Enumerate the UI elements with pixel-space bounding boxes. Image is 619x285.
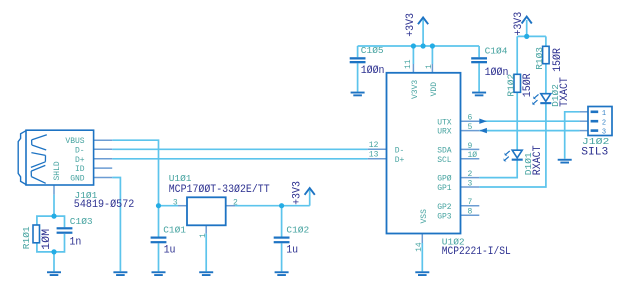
pin stub U102 V3V3 bbox=[412, 64, 414, 73]
wire UTX to J102 pin2 bbox=[479, 120, 579, 122]
junction SHLD/R101/C103 top bbox=[51, 214, 56, 219]
wire J102 pin1 to ground bbox=[565, 112, 580, 159]
svg-text:MCP17ØØT-33Ø2E/TT: MCP17ØØT-33Ø2E/TT bbox=[169, 184, 270, 196]
svg-text:1: 1 bbox=[602, 110, 606, 118]
wire J101 GND pin to ground bbox=[112, 178, 120, 272]
svg-text:11: 11 bbox=[404, 59, 413, 69]
pin stub U102 URX pin5 bbox=[461, 130, 480, 132]
wire +3V3 stem at U101 bbox=[309, 190, 311, 206]
junction bus/VDD bbox=[430, 43, 435, 48]
wire C104 bottom to ground bbox=[478, 63, 480, 91]
svg-text:C1Ø2: C1Ø2 bbox=[286, 224, 309, 235]
connector J102 pin2 bar bbox=[591, 120, 599, 123]
ground G7 under C104 bbox=[472, 92, 486, 94]
svg-text:TXACT: TXACT bbox=[559, 77, 571, 107]
wire GP1 to D102 cathode bbox=[479, 104, 546, 188]
svg-text:GP2: GP2 bbox=[437, 203, 452, 212]
svg-text:6: 6 bbox=[468, 114, 473, 123]
wire VBUS from J101 to U101 input bbox=[112, 140, 158, 206]
svg-text:3: 3 bbox=[173, 199, 178, 208]
pin stub U102 GP1 pin3 bbox=[461, 186, 480, 188]
pin stub U102 VSS bbox=[421, 234, 423, 244]
wire node to C103 top bbox=[54, 216, 65, 227]
pin stub J102 pin3 bbox=[580, 130, 588, 132]
junction C102/U101 out bbox=[279, 203, 284, 208]
svg-text:1u: 1u bbox=[164, 244, 176, 256]
capacitor C105 plates bbox=[350, 57, 366, 59]
svg-text:VSS: VSS bbox=[420, 209, 429, 224]
svg-text:1n: 1n bbox=[69, 237, 81, 249]
wire C101 bottom to ground bbox=[158, 243, 160, 271]
svg-text:C1Ø4: C1Ø4 bbox=[485, 46, 508, 57]
pin stub U102 GP3 pin8 bbox=[461, 214, 480, 216]
wire SHLD down to node bbox=[53, 195, 55, 217]
ground G5 under C102 bbox=[275, 271, 289, 273]
capacitor C103 plates bbox=[57, 227, 73, 229]
resistor R103 body bbox=[543, 46, 550, 63]
svg-text:1u: 1u bbox=[286, 244, 298, 256]
wire C103 bottom to node bbox=[54, 234, 65, 252]
wire +3V3 stem top middle bbox=[422, 20, 424, 47]
svg-text:54819-Ø572: 54819-Ø572 bbox=[74, 199, 135, 211]
power +3V3 arrow at U101 output bbox=[305, 188, 315, 195]
svg-text:R1Ø3: R1Ø3 bbox=[534, 47, 545, 70]
LED D101 emission arrows bbox=[504, 151, 510, 161]
svg-text:D-: D- bbox=[395, 146, 405, 155]
ground G3 under C101 bbox=[152, 271, 166, 273]
svg-text:URX: URX bbox=[437, 128, 452, 137]
svg-text:GND: GND bbox=[70, 175, 85, 184]
ground G8 under U102 VSS bbox=[415, 271, 429, 273]
resistor R102 body bbox=[514, 74, 521, 92]
svg-text:C1Ø1: C1Ø1 bbox=[163, 224, 186, 235]
ground G4 under U101 bbox=[199, 271, 213, 273]
LED D101 triangle bbox=[512, 150, 522, 158]
svg-text:5: 5 bbox=[468, 123, 473, 132]
wire VSS to ground bbox=[421, 243, 423, 271]
svg-text:D+: D+ bbox=[75, 156, 85, 165]
svg-text:15ØR: 15ØR bbox=[552, 48, 564, 72]
svg-text:2: 2 bbox=[468, 170, 473, 179]
LED D102 emission arrows bbox=[533, 94, 539, 104]
power +3V3 arrow top right bbox=[522, 17, 532, 24]
svg-text:1: 1 bbox=[199, 233, 208, 238]
wire +3V3 right rail bbox=[517, 35, 546, 37]
svg-text:7: 7 bbox=[468, 198, 473, 207]
wire C101 top bbox=[158, 206, 160, 237]
svg-text:RXACT: RXACT bbox=[532, 145, 544, 175]
capacitor C102 plates bbox=[274, 237, 290, 239]
connector J101 inner artwork bbox=[31, 135, 47, 184]
connector J102 pin1 bar bbox=[591, 111, 599, 114]
svg-text:MCP2221-I/SL: MCP2221-I/SL bbox=[442, 246, 511, 258]
svg-text:D+: D+ bbox=[395, 156, 405, 165]
svg-text:2: 2 bbox=[602, 119, 606, 127]
junction R101/C103 bottom bbox=[51, 249, 56, 254]
wire C104 top bbox=[478, 46, 480, 57]
pin stub J101 D+ bbox=[94, 158, 113, 160]
svg-text:VBUS: VBUS bbox=[65, 137, 84, 146]
svg-text:VDD: VDD bbox=[430, 82, 439, 97]
svg-text:13: 13 bbox=[369, 151, 379, 160]
svg-text:14: 14 bbox=[415, 242, 424, 252]
direction arrow URX in bbox=[479, 128, 487, 133]
wire C102 bottom to ground bbox=[281, 243, 283, 271]
wire D+ from J101 to U102 bbox=[112, 158, 368, 160]
svg-text:R1Ø2: R1Ø2 bbox=[506, 73, 517, 96]
wire R101 bottom to node bbox=[37, 243, 54, 252]
LED D101 cathode bar bbox=[512, 159, 523, 161]
regulator U101 body bbox=[187, 197, 226, 225]
svg-text:1ØM: 1ØM bbox=[41, 229, 53, 250]
wire V3V3 pin drop bbox=[412, 46, 414, 64]
ground G6 under C105 bbox=[351, 92, 365, 94]
wire C105 bottom to ground bbox=[357, 63, 359, 91]
pin stub U102 VDD bbox=[431, 64, 433, 73]
LED D102 triangle bbox=[541, 94, 551, 102]
svg-text:8: 8 bbox=[468, 208, 473, 217]
svg-text:ID: ID bbox=[75, 165, 85, 174]
svg-text:C1Ø5: C1Ø5 bbox=[361, 45, 384, 56]
ground G2 under J101 GND bbox=[113, 271, 127, 273]
LED D102 cathode bar bbox=[540, 102, 551, 104]
svg-text:SIL3: SIL3 bbox=[581, 147, 608, 159]
connector J101 shell bulge bbox=[18, 131, 26, 185]
pin stub U102 GP0 pin2 bbox=[461, 177, 480, 179]
svg-text:+3V3: +3V3 bbox=[405, 13, 417, 37]
wire VDD pin drop bbox=[431, 46, 433, 64]
junction bus/+3V3 stem bbox=[421, 43, 426, 48]
wire R102 bottom to D101 anode bbox=[516, 92, 518, 150]
svg-text:GP3: GP3 bbox=[437, 212, 452, 221]
pin stub U102 SDA pin9 bbox=[461, 148, 480, 150]
connector J102 body bbox=[588, 107, 612, 136]
svg-text:9: 9 bbox=[468, 142, 473, 151]
connector J101 body bbox=[26, 130, 94, 185]
wire rail to R102 top bbox=[516, 36, 518, 74]
pin stub J101 VBUS bbox=[94, 139, 113, 141]
wire rail to R103 top bbox=[545, 36, 547, 46]
pin stub J101 SHLD bbox=[53, 185, 55, 195]
capacitor C101 plates bbox=[151, 237, 167, 239]
wire GP0 to D101 cathode bbox=[479, 160, 517, 178]
wire R103 bottom to D102 anode bbox=[545, 64, 547, 94]
wire C105 top bbox=[357, 46, 359, 57]
wire +3V3 right stem bbox=[526, 20, 528, 36]
wire node to ground G1 bbox=[53, 252, 55, 271]
svg-text:2: 2 bbox=[233, 199, 238, 208]
svg-text:3: 3 bbox=[468, 179, 473, 188]
svg-text:+3V3: +3V3 bbox=[513, 12, 525, 36]
svg-text:UTX: UTX bbox=[437, 118, 452, 127]
direction arrow UTX out bbox=[479, 119, 487, 124]
junction VBUS/C101/U101 bbox=[156, 203, 161, 208]
wire C102 top bbox=[281, 206, 283, 237]
wire D- from J101 to U102 bbox=[112, 148, 368, 150]
wire 3V3 top bus bbox=[358, 45, 480, 47]
pin stub U102 D- pin12 bbox=[368, 148, 387, 150]
pin stub U101 pin3 bbox=[178, 205, 187, 207]
svg-text:15ØR: 15ØR bbox=[522, 73, 534, 97]
ground G9 under J102 pin1 bbox=[558, 159, 572, 161]
pin stub U102 GP2 pin7 bbox=[461, 205, 480, 207]
wire U101 pin1 to ground bbox=[205, 234, 207, 272]
svg-text:12: 12 bbox=[369, 141, 379, 150]
svg-text:1: 1 bbox=[425, 64, 434, 69]
pin stub U102 UTX pin6 bbox=[461, 120, 480, 122]
ground G1 under R101/C103 bbox=[47, 271, 61, 273]
svg-text:1ØØn: 1ØØn bbox=[361, 65, 385, 77]
wire node to R101 top bbox=[37, 216, 54, 225]
junction bus/V3V3 bbox=[411, 43, 416, 48]
IC U102 body bbox=[387, 73, 461, 234]
svg-text:U1Ø1: U1Ø1 bbox=[169, 173, 192, 184]
wire U101 pin2 to +3V3 bbox=[235, 205, 310, 207]
pin stub U102 SCL pin10 bbox=[461, 158, 480, 160]
svg-text:GPØ: GPØ bbox=[437, 175, 452, 184]
pin stub J102 pin1 bbox=[580, 111, 588, 113]
svg-text:SDA: SDA bbox=[437, 147, 452, 156]
capacitor C104 plates bbox=[471, 57, 487, 59]
svg-text:D-: D- bbox=[75, 146, 85, 155]
connector J102 pin3 bar bbox=[591, 129, 599, 132]
pin stub J101 D- bbox=[94, 148, 113, 150]
svg-text:R1Ø1: R1Ø1 bbox=[21, 226, 32, 249]
resistor R101 body bbox=[33, 225, 40, 243]
pin stub U101 pin1 bbox=[205, 225, 207, 233]
pin stub U101 pin2 bbox=[226, 205, 235, 207]
svg-text:SHLD: SHLD bbox=[53, 161, 62, 180]
svg-text:SCL: SCL bbox=[437, 156, 452, 165]
pin stub J102 pin2 bbox=[580, 120, 588, 122]
svg-text:C1Ø3: C1Ø3 bbox=[70, 216, 93, 227]
svg-text:GP1: GP1 bbox=[437, 184, 452, 193]
junction +3V3 right rail bbox=[524, 34, 529, 39]
pin stub J101 GND bbox=[94, 177, 113, 179]
pin stub J101 ID (no connect) bbox=[94, 167, 113, 169]
svg-text:V3V3: V3V3 bbox=[411, 80, 420, 99]
pin stub U102 D+ pin13 bbox=[368, 158, 387, 160]
svg-text:1Ø: 1Ø bbox=[468, 151, 478, 160]
svg-text:J1Ø2: J1Ø2 bbox=[582, 136, 610, 147]
power +3V3 arrow top middle bbox=[418, 18, 428, 25]
svg-text:+3V3: +3V3 bbox=[292, 181, 304, 205]
wire URX to J102 pin3 bbox=[479, 130, 579, 132]
wire VBUS node to U101 pin3 bbox=[159, 205, 179, 207]
